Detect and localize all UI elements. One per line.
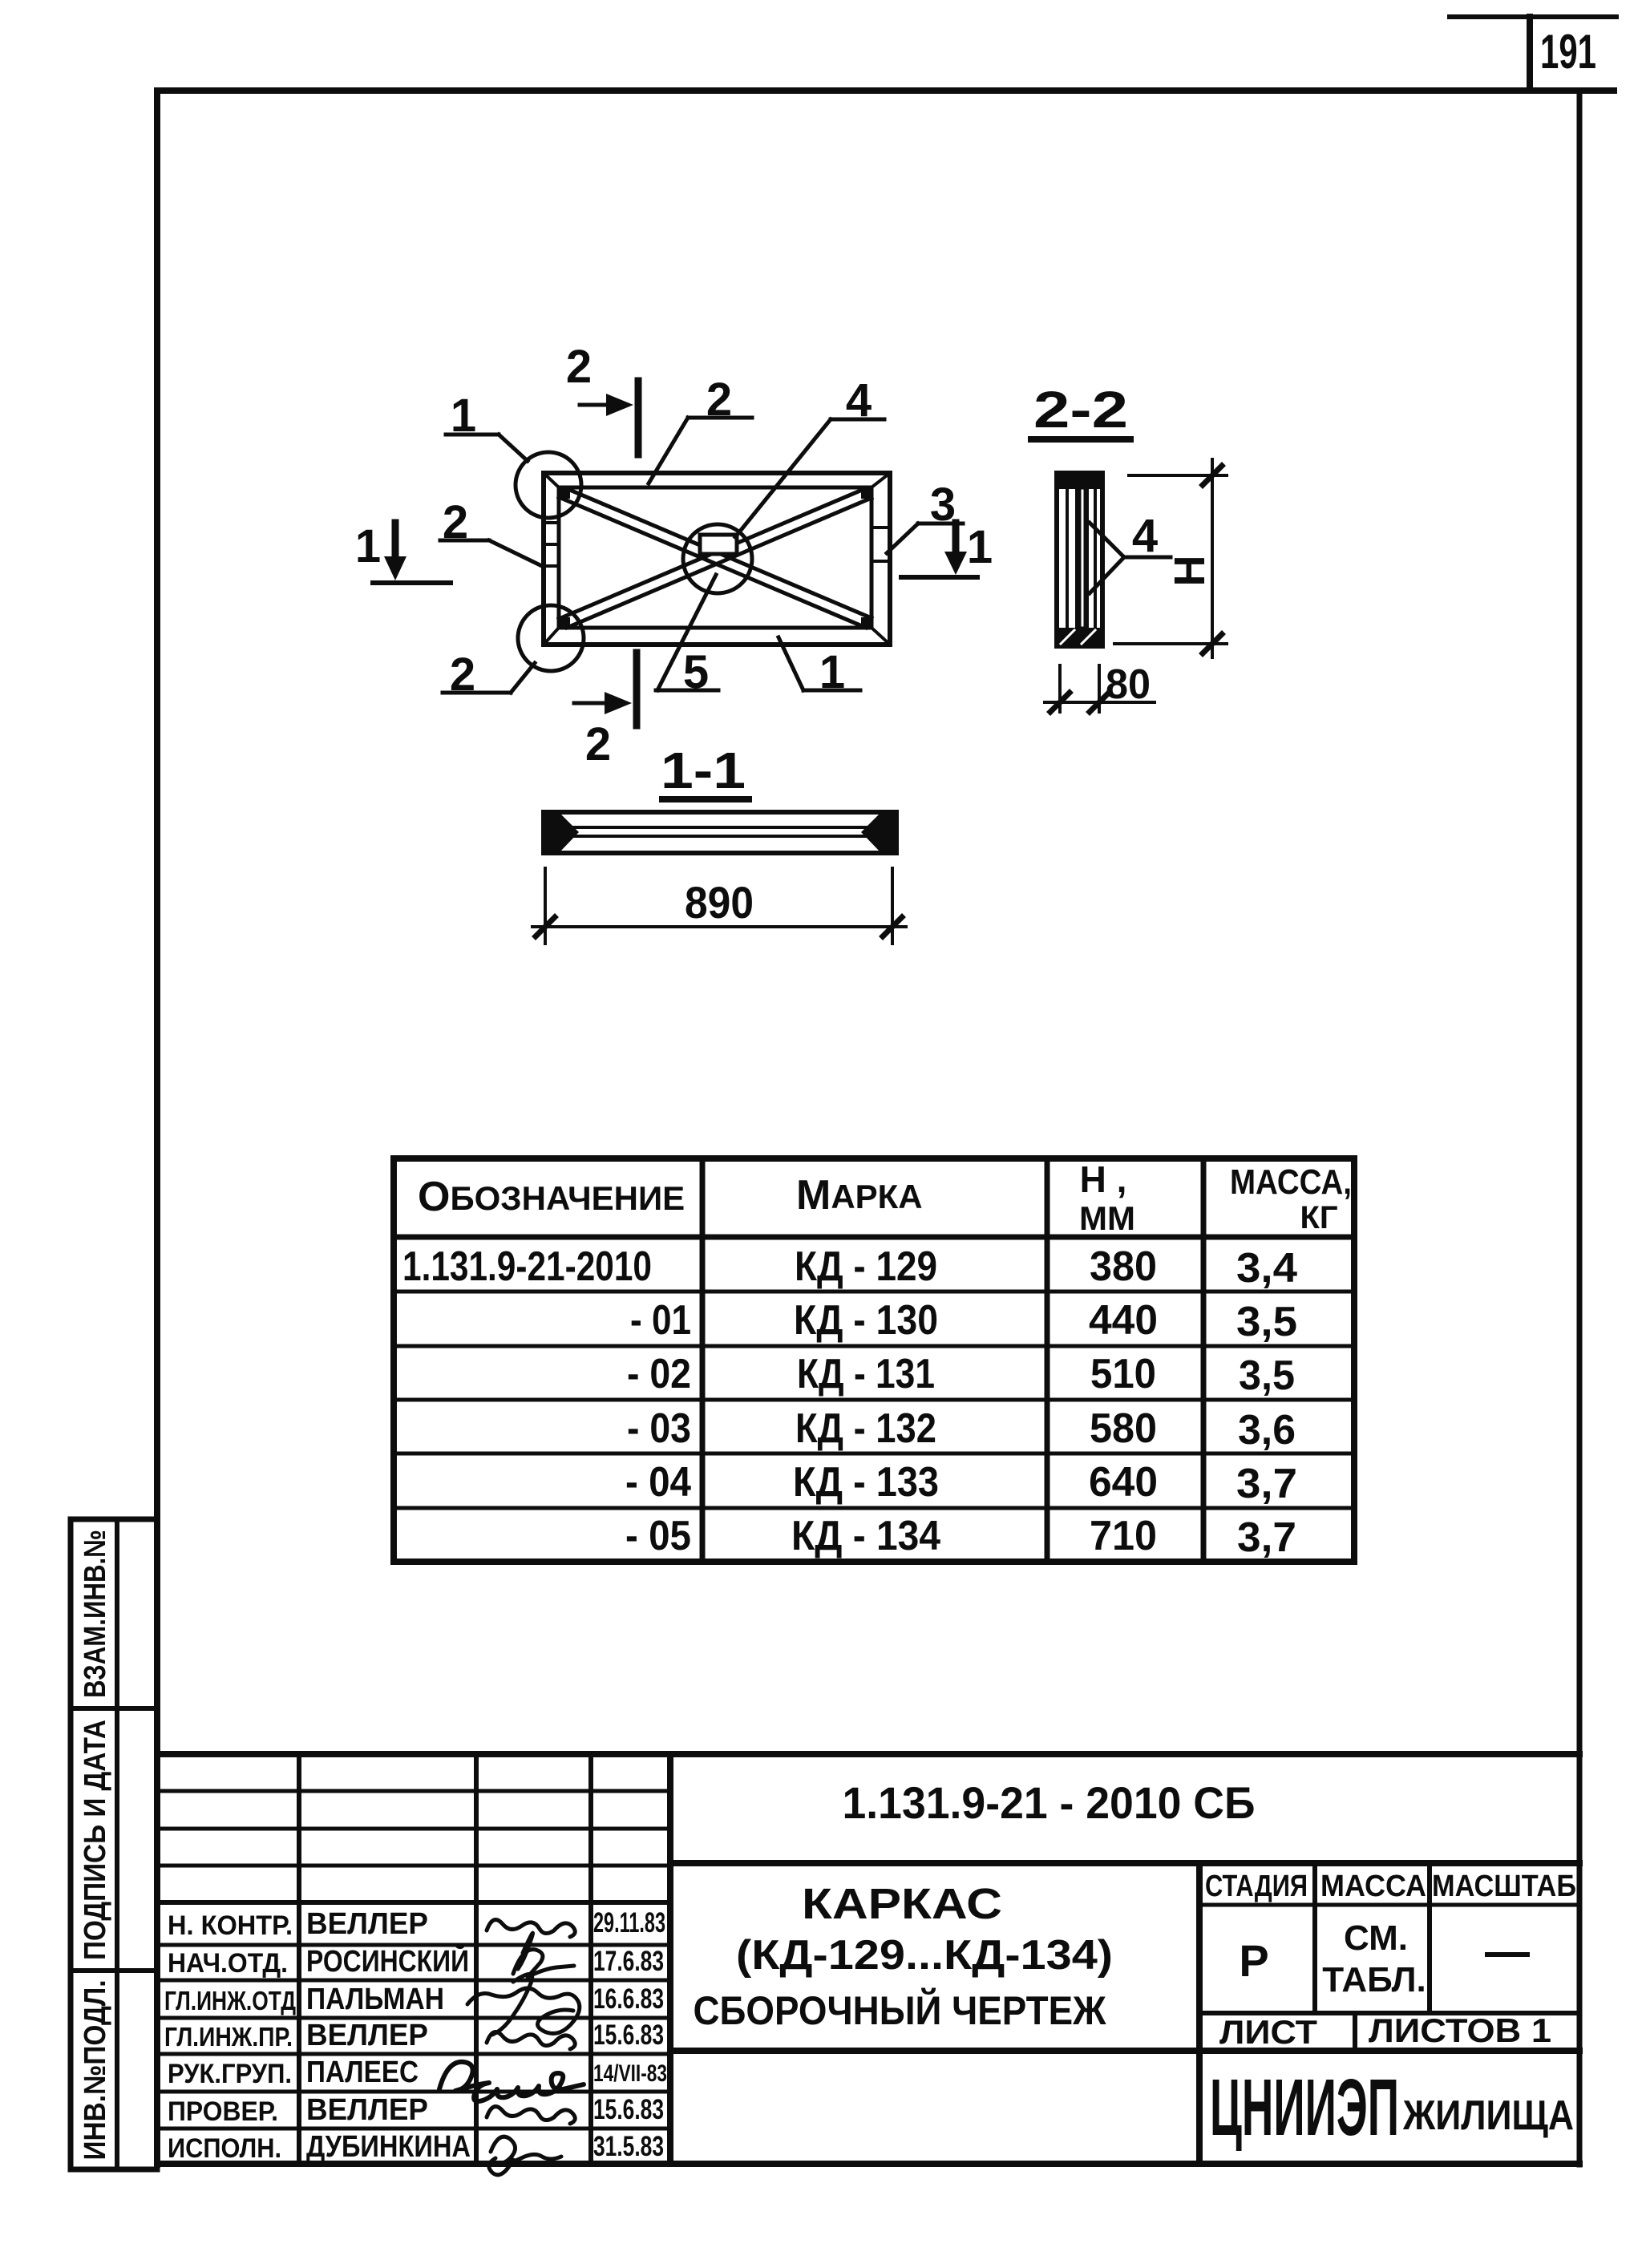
svg-text:- 03: - 03 <box>627 1405 691 1452</box>
svg-text:4: 4 <box>846 374 872 427</box>
svg-text:29.11.83: 29.11.83 <box>593 1907 665 1939</box>
item label 1 top-left <box>446 435 528 461</box>
svg-text:15.6.83: 15.6.83 <box>593 2094 664 2125</box>
svg-text:191: 191 <box>1540 25 1596 79</box>
svg-text:СБОРОЧНЫЙ ЧЕРТЕЖ: СБОРОЧНЫЙ ЧЕРТЕЖ <box>694 1987 1107 2033</box>
svg-text:ВЕЛЛЕР: ВЕЛЛЕР <box>306 1907 428 1941</box>
svg-text:640: 640 <box>1089 1459 1158 1506</box>
svg-text:ИНВ.№ПОДЛ.: ИНВ.№ПОДЛ. <box>79 1980 112 2161</box>
svg-text:ЦНИИЭП: ЦНИИЭП <box>1210 2063 1399 2153</box>
svg-text:3,5: 3,5 <box>1236 1299 1297 1345</box>
section 2-2 bottom cap hatch <box>1061 630 1095 644</box>
item label 4 <box>735 419 884 537</box>
svg-text:580: 580 <box>1090 1405 1157 1452</box>
left bar tick marks <box>544 523 559 566</box>
svg-text:2: 2 <box>585 718 611 770</box>
svg-text:2-2: 2-2 <box>1033 381 1128 439</box>
svg-text:ТАБЛ.: ТАБЛ. <box>1322 1960 1426 1999</box>
item label 2 bottom-left <box>443 663 535 693</box>
svg-text:МАССА,: МАССА, <box>1230 1162 1352 1202</box>
svg-text:- 01: - 01 <box>630 1297 691 1344</box>
svg-text:3,6: 3,6 <box>1238 1407 1296 1453</box>
signature веллер 2 <box>487 2032 575 2049</box>
svg-text:3,7: 3,7 <box>1236 1461 1297 1507</box>
svg-text:3,7: 3,7 <box>1237 1514 1296 1561</box>
svg-text:2: 2 <box>566 341 592 393</box>
svg-text:Н. КОНТР.: Н. КОНТР. <box>168 1910 293 1941</box>
section 2-2 top cap <box>1057 473 1102 489</box>
svg-text:МАРКА: МАРКА <box>796 1172 923 1219</box>
svg-text:МАССА: МАССА <box>1320 1870 1426 1903</box>
corner miter lines <box>544 473 890 645</box>
detail circle bottom-left corner <box>518 605 584 671</box>
section 1-1 bar outline <box>544 812 896 853</box>
plan view frame outer rectangle <box>544 473 890 645</box>
svg-text:1.131.9-21-2010: 1.131.9-21-2010 <box>402 1243 652 1290</box>
svg-text:80: 80 <box>1106 661 1151 708</box>
svg-text:440: 440 <box>1089 1297 1158 1344</box>
section cut mark 1 right <box>901 523 977 577</box>
dimension H vertical <box>1114 459 1227 657</box>
section 1-1 mid lines <box>561 827 879 836</box>
svg-text:ВЕЛЛЕР: ВЕЛЛЕР <box>306 2019 428 2052</box>
svg-text:17.6.83: 17.6.83 <box>593 1946 664 1977</box>
svg-text:ОБОЗНАЧЕНИЕ: ОБОЗНАЧЕНИЕ <box>418 1174 685 1220</box>
item label 4 in section 2-2 <box>1090 523 1171 593</box>
item label 3 <box>887 524 963 553</box>
svg-text:1: 1 <box>355 520 381 572</box>
svg-text:- 02: - 02 <box>627 1351 691 1397</box>
svg-text:ВЕЛЛЕР: ВЕЛЛЕР <box>306 2093 428 2127</box>
plan view frame inner rectangle <box>559 487 872 628</box>
svg-text:ВЗАМ.ИНВ.№: ВЗАМ.ИНВ.№ <box>79 1530 112 1698</box>
detail circle center node <box>683 524 752 593</box>
svg-text:Н: Н <box>1166 556 1214 587</box>
signature веллер 1 <box>487 1920 575 1937</box>
page number box <box>1450 17 1616 91</box>
svg-text:1: 1 <box>967 521 993 573</box>
svg-text:15.6.83: 15.6.83 <box>593 2019 664 2051</box>
svg-text:ПАЛЕЕС: ПАЛЕЕС <box>306 2056 419 2089</box>
svg-text:НАЧ.ОТД.: НАЧ.ОТД. <box>168 1948 288 1979</box>
signature дубинкина <box>489 2137 561 2175</box>
svg-text:(КД-129...КД-134): (КД-129...КД-134) <box>736 1932 1113 1979</box>
svg-text:3: 3 <box>930 479 956 531</box>
svg-text:РУК.ГРУП.: РУК.ГРУП. <box>168 2059 292 2089</box>
svg-text:Н ,: Н , <box>1080 1158 1127 1200</box>
svg-text:4: 4 <box>1132 510 1158 562</box>
dimension 890 <box>532 868 906 944</box>
svg-text:2: 2 <box>450 649 475 701</box>
svg-text:ЛИСТОВ 1: ЛИСТОВ 1 <box>1369 2011 1551 2049</box>
section cut mark 1 left <box>373 523 451 583</box>
svg-text:КАРКАС: КАРКАС <box>802 1880 1002 1928</box>
corner gusset squares <box>560 489 871 627</box>
svg-text:РОСИНСКИЙ: РОСИНСКИЙ <box>306 1943 469 1979</box>
item label 5 <box>656 575 718 690</box>
svg-text:31.5.83: 31.5.83 <box>593 2131 664 2162</box>
title block grid <box>157 1754 1579 2164</box>
item label 2 top <box>649 418 752 483</box>
left stamp strip ВЗАМ.ИНВ.№ box <box>71 1519 157 2169</box>
svg-text:КД - 130: КД - 130 <box>794 1297 938 1344</box>
data table grid <box>394 1158 1354 1562</box>
svg-text:1-1: 1-1 <box>661 742 746 799</box>
svg-text:3,5: 3,5 <box>1239 1352 1295 1399</box>
section 2-2 column outline <box>1057 473 1102 646</box>
svg-text:3,4: 3,4 <box>1236 1245 1297 1292</box>
svg-text:ПОДПИСЬ И ДАТА: ПОДПИСЬ И ДАТА <box>79 1720 112 1960</box>
svg-text:ИСПОЛН.: ИСПОЛН. <box>168 2133 281 2164</box>
svg-text:16.6.83: 16.6.83 <box>593 1983 664 2015</box>
svg-text:2: 2 <box>706 374 732 426</box>
section 1-1 left end wedge <box>544 812 579 853</box>
svg-text:710: 710 <box>1090 1513 1157 1559</box>
section 2-2 inner vertical lines <box>1067 487 1095 629</box>
svg-text:КД - 133: КД - 133 <box>793 1459 939 1506</box>
svg-text:МАСШТАБ: МАСШТАБ <box>1432 1870 1576 1903</box>
scale value dash <box>1487 1952 1527 1957</box>
section 1-1 right end wedge <box>861 812 896 853</box>
section 2-2 bottom cap <box>1057 628 1102 646</box>
svg-text:380: 380 <box>1090 1243 1157 1290</box>
svg-text:ЖИЛИЩА: ЖИЛИЩА <box>1402 2092 1574 2139</box>
svg-text:5: 5 <box>683 646 709 698</box>
svg-text:ММ: ММ <box>1079 1199 1135 1237</box>
svg-text:890: 890 <box>685 877 754 928</box>
right bar tick marks <box>872 528 890 561</box>
svg-text:ГЛ.ИНЖ.ОТД: ГЛ.ИНЖ.ОТД <box>164 1986 296 2015</box>
svg-text:СТАДИЯ: СТАДИЯ <box>1205 1870 1308 1903</box>
svg-text:2: 2 <box>443 496 468 548</box>
section cut mark 2 bottom <box>574 653 637 726</box>
svg-text:- 04: - 04 <box>625 1459 691 1506</box>
dimension 80 <box>1045 665 1155 712</box>
section cut mark 2 top <box>580 381 638 455</box>
svg-text:КД - 134: КД - 134 <box>791 1513 940 1559</box>
svg-text:1: 1 <box>451 390 476 442</box>
svg-text:- 05: - 05 <box>625 1513 691 1559</box>
svg-text:ДУБИНКИНА: ДУБИНКИНА <box>306 2130 471 2164</box>
detail circle top-left corner <box>516 452 581 518</box>
signature веллер 3 <box>487 2107 575 2124</box>
signature росинский <box>513 1933 574 1977</box>
svg-text:КД - 129: КД - 129 <box>795 1243 937 1290</box>
svg-text:КД - 131: КД - 131 <box>797 1351 935 1397</box>
svg-text:СМ.: СМ. <box>1344 1918 1408 1958</box>
svg-text:Р: Р <box>1239 1935 1268 1986</box>
svg-text:КД - 132: КД - 132 <box>795 1405 936 1452</box>
svg-text:КГ: КГ <box>1300 1200 1337 1235</box>
center gusset plate <box>700 535 737 554</box>
svg-text:ПАЛЬМАН: ПАЛЬМАН <box>306 1983 444 2016</box>
svg-text:1.131.9-21 - 2010 СБ: 1.131.9-21 - 2010 СБ <box>843 1777 1256 1828</box>
item label 2 left <box>440 540 544 567</box>
svg-text:14/VII-83: 14/VII-83 <box>593 2060 667 2087</box>
diagonal brace top-left to bottom-right (double line) <box>559 488 872 628</box>
signature пальман large <box>467 1974 580 2035</box>
signature палеес large cursive <box>439 2062 584 2101</box>
svg-text:ЛИСТ: ЛИСТ <box>1219 2013 1317 2051</box>
svg-text:ПРОВЕР.: ПРОВЕР. <box>168 2096 278 2127</box>
svg-text:ГЛ.ИНЖ.ПР.: ГЛ.ИНЖ.ПР. <box>164 2022 293 2052</box>
svg-text:1: 1 <box>819 646 845 698</box>
diagonal brace bottom-left to top-right (double line) <box>559 488 872 628</box>
svg-text:510: 510 <box>1090 1351 1156 1397</box>
item label 1 bottom <box>779 637 860 690</box>
